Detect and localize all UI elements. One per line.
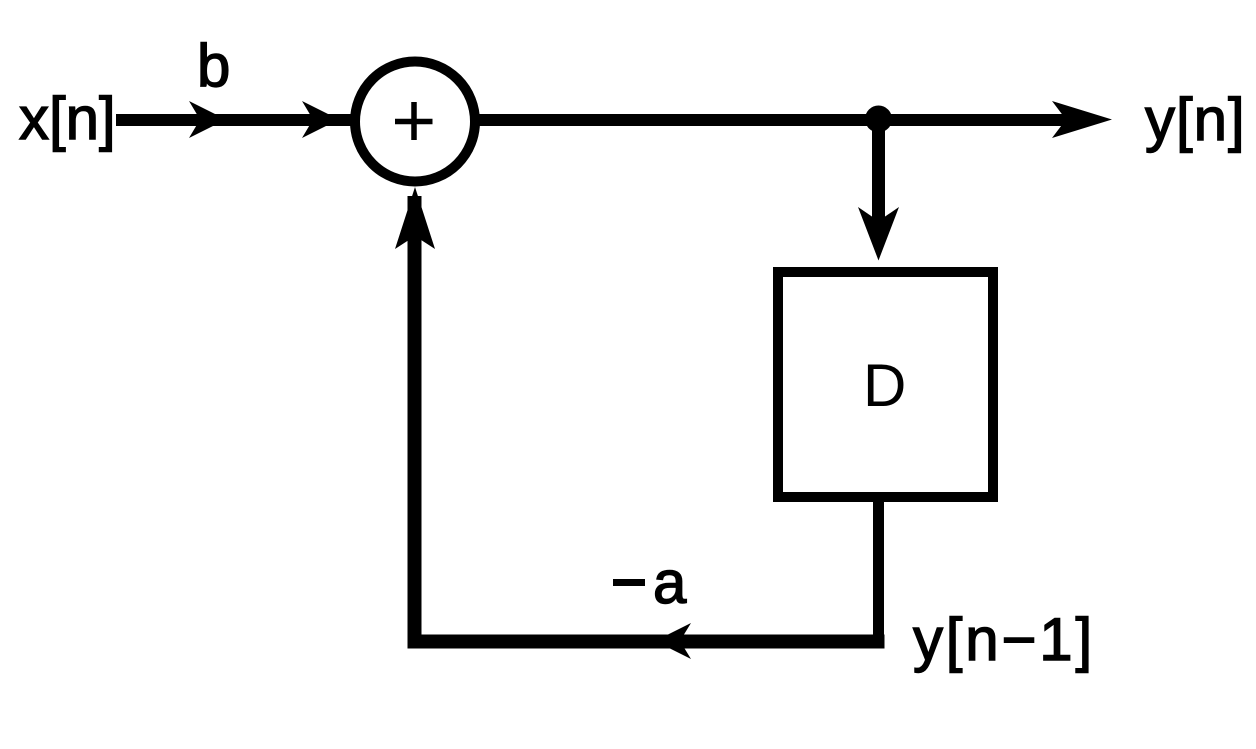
svg-text:D: D	[863, 352, 906, 419]
block D box	[778, 272, 993, 497]
svg-text:a: a	[653, 549, 687, 616]
arrowhead y[n]	[1052, 101, 1112, 138]
plus sign	[395, 102, 433, 140]
node junction dot	[865, 106, 892, 133]
wire junction down to D box	[872, 119, 885, 224]
wire bottom feedback	[408, 635, 885, 649]
wire input x[n] to summer	[116, 114, 356, 126]
svg-text:y[n]: y[n]	[1145, 86, 1246, 153]
arrowhead feedback (left)	[655, 623, 691, 659]
arrowhead input 2	[302, 101, 339, 138]
arrowhead into summer (up)	[395, 187, 435, 249]
wire output summer to y[n]	[477, 114, 1077, 126]
wire D box down	[873, 497, 884, 648]
arrowhead into D box (down)	[858, 207, 899, 261]
wire feedback up to summer	[408, 196, 422, 649]
svg-text:y[n−1]: y[n−1]	[913, 606, 1095, 673]
svg-text:x[n]: x[n]	[19, 85, 116, 152]
arrowhead input 1	[189, 101, 226, 138]
op summer circle	[355, 62, 475, 182]
svg-text:b: b	[197, 32, 230, 99]
label minus of -a	[613, 579, 645, 586]
